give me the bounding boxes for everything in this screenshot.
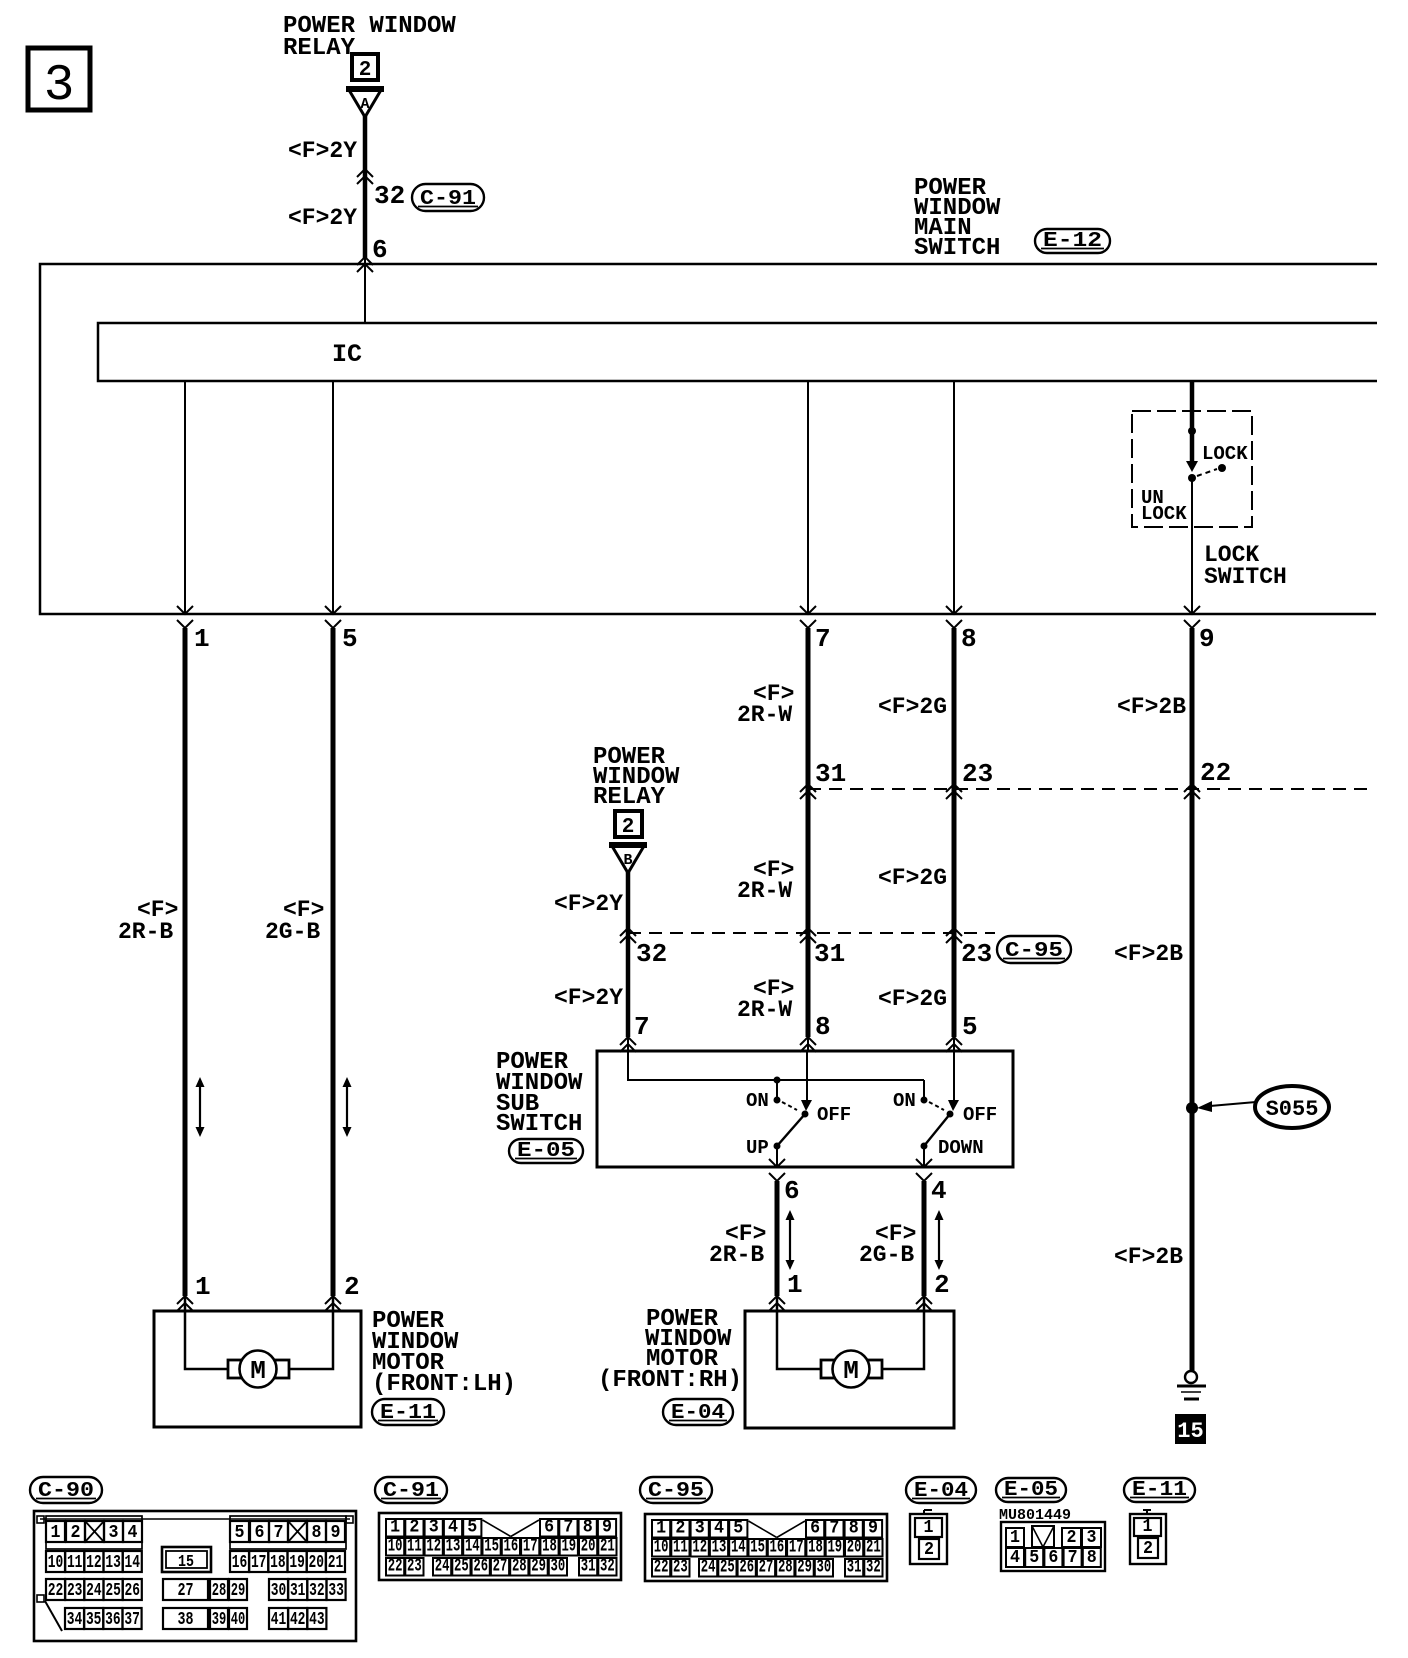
svg-text:20: 20: [581, 1536, 596, 1557]
wire pin7 inside box: [807, 381, 809, 614]
svg-text:1: 1: [924, 1517, 934, 1538]
lock switch moving contact arrow: [1186, 461, 1198, 472]
wire pin5 to motor LH: [331, 628, 336, 1296]
svg-text:28: 28: [778, 1557, 793, 1578]
svg-text:E-05: E-05: [517, 1140, 575, 1163]
label POWER WINDOW MOTOR FRONT LH: [372, 1308, 516, 1398]
svg-text:27: 27: [759, 1557, 774, 1578]
connector label C-91 (bottom): [375, 1477, 447, 1503]
relay B terminal box 2: [615, 811, 642, 839]
svg-text:26: 26: [473, 1556, 488, 1577]
svg-text:21: 21: [600, 1536, 615, 1557]
sub wire pin8 internal: [806, 1051, 808, 1101]
svg-text:15: 15: [178, 1553, 194, 1572]
power window sub switch box: [597, 1051, 1013, 1167]
svg-text:2: 2: [675, 1518, 685, 1539]
label LOCK SWITCH: [1204, 542, 1287, 590]
svg-text:23: 23: [407, 1556, 422, 1577]
svg-text:20: 20: [309, 1552, 325, 1573]
wire pin8 inside box: [953, 381, 955, 614]
svg-text:1: 1: [1143, 1516, 1153, 1537]
connector crossing E-12 pin6: [357, 257, 373, 272]
svg-text:19: 19: [289, 1552, 305, 1573]
connector crossing relayB/32: [620, 928, 636, 943]
svg-text:25: 25: [454, 1556, 469, 1577]
svg-text:M: M: [250, 1356, 266, 1386]
svg-text:7: 7: [634, 1012, 650, 1042]
svg-text:<F>2G: <F>2G: [878, 694, 947, 720]
svg-text:SWITCH: SWITCH: [496, 1111, 582, 1138]
svg-text:42: 42: [290, 1609, 306, 1630]
connector crossing pin7/31 upper: [800, 784, 816, 799]
connector crossing motor LH pin1: [177, 1296, 193, 1311]
svg-text:25: 25: [105, 1580, 121, 1601]
svg-text:17: 17: [251, 1552, 267, 1573]
svg-text:UP: UP: [746, 1137, 769, 1159]
IC box: [98, 323, 1377, 381]
svg-text:3: 3: [429, 1517, 439, 1538]
sub right OFF arrow: [948, 1100, 959, 1111]
sub left dashed arc: [782, 1102, 797, 1110]
svg-text:17: 17: [523, 1536, 538, 1557]
svg-text:2: 2: [409, 1517, 419, 1538]
wire sub pin5 thin: [953, 1037, 955, 1051]
connector crossing pin8/23 lower: [946, 928, 962, 943]
up-down arrow (pin5 wire): [343, 1077, 352, 1137]
lock switch blade dashed: [1197, 469, 1217, 476]
wire pin4 to motor RH: [922, 1181, 927, 1296]
relay A triangle: [346, 89, 384, 117]
svg-text:E-05: E-05: [1004, 1479, 1058, 1502]
connector crossing pin9/22 upper: [1184, 784, 1200, 799]
svg-text:40: 40: [231, 1609, 246, 1630]
svg-text:26: 26: [125, 1580, 141, 1601]
svg-text:11: 11: [67, 1552, 83, 1573]
label POWER WINDOW RELAY (B): [593, 744, 680, 811]
wire pin8 to sub switch: [952, 628, 957, 1037]
svg-text:OFF: OFF: [963, 1104, 997, 1126]
connector crossing main switch pin 9: [1184, 606, 1200, 628]
S055 arrow: [1197, 1101, 1256, 1112]
connector label E-11 (bottom): [1124, 1478, 1195, 1502]
svg-text:16: 16: [232, 1552, 248, 1573]
svg-text:4: 4: [1010, 1547, 1020, 1568]
wire relay A to main switch: [363, 115, 368, 258]
sub right dashed arc: [929, 1102, 944, 1110]
svg-text:1: 1: [51, 1522, 61, 1543]
svg-text:E-11: E-11: [380, 1402, 436, 1425]
motor LH wire pin1 inside: [185, 1296, 228, 1369]
connector E-05 pin diagram: [999, 1507, 1105, 1571]
connector label C-91 (top): [412, 184, 484, 211]
connector C-90 pin diagram: [34, 1511, 356, 1641]
page number 3 box: [28, 48, 90, 115]
svg-text:10: 10: [48, 1552, 64, 1573]
svg-text:11: 11: [407, 1536, 422, 1557]
svg-text:9: 9: [868, 1518, 878, 1539]
svg-text:2G-B: 2G-B: [265, 919, 320, 945]
wire pin5 inside box: [332, 381, 334, 614]
sub right ON contact dot: [921, 1097, 928, 1104]
svg-text:18: 18: [270, 1552, 286, 1573]
sub right DOWN contact dot: [921, 1143, 928, 1150]
svg-text:23: 23: [673, 1557, 688, 1578]
motor LH right brush: [275, 1360, 289, 1378]
svg-text:2: 2: [71, 1522, 81, 1543]
svg-text:LOCK: LOCK: [1141, 503, 1187, 525]
label POWER WINDOW RELAY (A): [283, 13, 456, 62]
svg-text:13: 13: [712, 1537, 727, 1558]
sub right ON stem: [923, 1080, 925, 1097]
connector C-95 pin diagram: [645, 1514, 887, 1581]
dashed harness line upper: [808, 788, 1369, 790]
wire sub pin7 thin: [627, 1037, 629, 1051]
svg-text:1: 1: [195, 1272, 211, 1302]
motor RH wire pin1 inside: [777, 1296, 821, 1369]
svg-text:6: 6: [544, 1517, 554, 1538]
svg-text:27: 27: [493, 1556, 508, 1577]
svg-text:5: 5: [733, 1518, 743, 1539]
svg-text:18: 18: [808, 1537, 823, 1558]
svg-text:21: 21: [866, 1537, 881, 1558]
connector crossing motor RH pin2: [916, 1296, 932, 1311]
svg-text:24: 24: [86, 1580, 102, 1601]
svg-text:2: 2: [1143, 1538, 1153, 1559]
svg-text:29: 29: [531, 1556, 546, 1577]
svg-text:31: 31: [815, 759, 846, 789]
svg-text:12: 12: [86, 1552, 102, 1573]
sub left OFF contact dot: [802, 1111, 809, 1118]
wire to lock switch: [1190, 381, 1195, 464]
svg-text:1: 1: [194, 624, 210, 654]
svg-text:30: 30: [271, 1580, 287, 1601]
svg-text:24: 24: [701, 1557, 716, 1578]
svg-text:2: 2: [1067, 1527, 1077, 1548]
svg-text:C-91: C-91: [420, 188, 476, 211]
connector label E-12: [1035, 229, 1110, 253]
svg-text:5: 5: [342, 624, 358, 654]
svg-text:29: 29: [797, 1557, 812, 1578]
dashed harness line lower (C-95): [628, 932, 995, 934]
svg-text:2R-W: 2R-W: [737, 878, 792, 904]
svg-text:E-04: E-04: [914, 1480, 968, 1503]
svg-text:<F>2B: <F>2B: [1117, 694, 1186, 720]
power window main switch box: [40, 264, 1377, 614]
svg-text:20: 20: [847, 1537, 862, 1558]
svg-text:5: 5: [235, 1522, 245, 1543]
svg-text:<F>2B: <F>2B: [1114, 941, 1183, 967]
svg-text:12: 12: [692, 1537, 707, 1558]
svg-text:33: 33: [328, 1580, 344, 1601]
svg-text:15: 15: [750, 1537, 765, 1558]
svg-text:<F>2G: <F>2G: [878, 865, 947, 891]
svg-text:41: 41: [271, 1609, 287, 1630]
relay A terminal box 2: [352, 54, 378, 82]
lock contact dot: [1218, 464, 1226, 472]
svg-text:LOCK: LOCK: [1202, 443, 1248, 465]
ground symbol: [1177, 1371, 1206, 1399]
svg-text:10: 10: [654, 1537, 669, 1558]
svg-text:2: 2: [934, 1270, 950, 1300]
svg-text:37: 37: [124, 1609, 140, 1630]
svg-text:1: 1: [656, 1518, 666, 1539]
svg-text:32: 32: [636, 939, 667, 969]
connector label C-95 (bottom): [640, 1477, 712, 1503]
label (F)2G-B: [265, 897, 324, 945]
connector crossing sub pin8: [800, 1037, 816, 1052]
svg-text:9: 9: [331, 1522, 341, 1543]
svg-text:2: 2: [359, 59, 372, 82]
svg-text:2: 2: [344, 1272, 360, 1302]
connector label E-05 (bottom): [996, 1478, 1066, 1502]
svg-text:11: 11: [673, 1537, 688, 1558]
connector crossing main switch pin 7: [800, 606, 816, 628]
svg-text:28: 28: [512, 1556, 527, 1577]
svg-text:9: 9: [602, 1517, 612, 1538]
label (F)2R-W second: [737, 857, 794, 904]
power window motor RH box: [745, 1311, 954, 1428]
up-down arrow (pin4 wire): [935, 1210, 944, 1270]
svg-text:24: 24: [435, 1556, 450, 1577]
label UNLOCK (contact): [1141, 487, 1187, 525]
svg-text:15: 15: [484, 1536, 499, 1557]
connector label E-11 (motor): [372, 1399, 444, 1425]
connector label E-04 (bottom): [906, 1477, 976, 1503]
label (F)2R-B (RH): [709, 1221, 766, 1268]
sub left UP contact dot: [774, 1143, 781, 1150]
sub wire pin5 internal: [953, 1051, 955, 1101]
motor RH circle M: [833, 1351, 870, 1388]
motor RH wire pin2 inside: [882, 1296, 924, 1369]
sub left ON junction dot: [774, 1077, 781, 1084]
connector E-11 pin diagram: [1130, 1510, 1166, 1564]
svg-text:2G-B: 2G-B: [859, 1242, 914, 1268]
svg-text:38: 38: [178, 1609, 194, 1630]
svg-text:18: 18: [542, 1536, 557, 1557]
motor RH left brush: [821, 1360, 835, 1378]
connector label E-05 (box): [509, 1139, 583, 1163]
svg-text:4: 4: [448, 1517, 458, 1538]
svg-text:31: 31: [814, 939, 845, 969]
svg-text:9: 9: [1199, 624, 1215, 654]
svg-text:35: 35: [86, 1609, 102, 1630]
svg-text:C-90: C-90: [38, 1480, 94, 1503]
connector crossing pin7/31 lower: [800, 928, 816, 943]
connector crossing motor RH pin1: [769, 1296, 785, 1311]
svg-text:6: 6: [372, 235, 388, 265]
wire pin9 to ground: [1190, 628, 1195, 1371]
svg-text:7: 7: [1068, 1547, 1078, 1568]
connector crossing sub pin7: [620, 1037, 636, 1052]
svg-text:12: 12: [426, 1536, 441, 1557]
svg-text:C-95: C-95: [648, 1480, 704, 1503]
svg-text:17: 17: [789, 1537, 804, 1558]
svg-text:22: 22: [48, 1580, 64, 1601]
connector crossing sub pin6: [769, 1159, 785, 1181]
wire pin1 to motor LH: [183, 628, 188, 1296]
svg-text:30: 30: [817, 1557, 832, 1578]
svg-text:7: 7: [829, 1518, 839, 1539]
label POWER WINDOW MOTOR FRONT RH: [598, 1306, 742, 1394]
up-down arrow (pin6 wire): [786, 1210, 795, 1270]
power window motor LH box: [154, 1311, 361, 1427]
svg-text:4: 4: [714, 1518, 724, 1539]
svg-text:5: 5: [1029, 1547, 1039, 1568]
svg-text:22: 22: [654, 1557, 669, 1578]
svg-text:36: 36: [105, 1609, 121, 1630]
sub left blade: [777, 1114, 805, 1146]
connector crossing C-91 pin32 on wire A: [357, 169, 373, 184]
svg-text:6: 6: [255, 1522, 265, 1543]
label (F)2R-B: [118, 897, 178, 945]
svg-text:23: 23: [961, 939, 992, 969]
svg-text:RELAY: RELAY: [283, 35, 356, 62]
up-down arrow (pin1 wire): [196, 1077, 205, 1137]
sub left ON contact dot: [774, 1097, 781, 1104]
motor LH left brush: [228, 1360, 242, 1378]
svg-text:6: 6: [1048, 1547, 1058, 1568]
svg-text:28: 28: [212, 1580, 227, 1601]
svg-text:32: 32: [600, 1556, 615, 1577]
svg-text:(FRONT:RH): (FRONT:RH): [598, 1367, 742, 1394]
wire pin6 to motor RH: [775, 1181, 780, 1296]
svg-text:13: 13: [446, 1536, 461, 1557]
lock switch junction dot: [1188, 427, 1196, 435]
svg-text:SWITCH: SWITCH: [914, 235, 1000, 262]
svg-text:6: 6: [784, 1176, 800, 1206]
svg-text:8: 8: [849, 1518, 859, 1539]
svg-text:ON: ON: [893, 1090, 916, 1112]
sub left ON stem: [776, 1080, 778, 1097]
svg-text:ON: ON: [746, 1090, 769, 1112]
sub wire DOWN out: [923, 1146, 925, 1167]
svg-text:21: 21: [328, 1552, 344, 1573]
label POWER WINDOW MAIN SWITCH: [914, 175, 1001, 262]
connector crossing motor LH pin2: [325, 1296, 341, 1311]
lock switch common dot: [1188, 474, 1196, 482]
svg-text:26: 26: [739, 1557, 754, 1578]
svg-text:7: 7: [815, 624, 831, 654]
svg-text:27: 27: [178, 1580, 194, 1601]
svg-text:15: 15: [1177, 1419, 1203, 1444]
svg-text:22: 22: [1200, 758, 1231, 788]
svg-text:32: 32: [309, 1580, 325, 1601]
connector crossing main switch pin 8: [946, 606, 962, 628]
svg-text:31: 31: [581, 1556, 596, 1577]
svg-text:1: 1: [1010, 1527, 1020, 1548]
svg-text:1: 1: [787, 1270, 803, 1300]
svg-text:8: 8: [583, 1517, 593, 1538]
svg-text:3: 3: [695, 1518, 705, 1539]
motor RH right brush: [868, 1360, 882, 1378]
svg-text:14: 14: [465, 1536, 480, 1557]
wire pin1 inside box: [184, 381, 186, 614]
svg-text:C-91: C-91: [383, 1480, 439, 1503]
svg-text:1: 1: [390, 1517, 400, 1538]
svg-text:31: 31: [290, 1580, 306, 1601]
connector crossing sub pin4: [916, 1159, 932, 1181]
svg-text:13: 13: [105, 1552, 121, 1573]
svg-text:25: 25: [720, 1557, 735, 1578]
svg-text:39: 39: [212, 1609, 227, 1630]
svg-text:4: 4: [128, 1522, 138, 1543]
svg-text:23: 23: [67, 1580, 83, 1601]
svg-text:<F>2B: <F>2B: [1114, 1244, 1183, 1270]
svg-text:2R-B: 2R-B: [118, 919, 173, 945]
svg-text:32: 32: [866, 1557, 881, 1578]
label (F)2R-W first: [737, 681, 794, 728]
svg-text:43: 43: [309, 1609, 325, 1630]
svg-text:23: 23: [962, 759, 993, 789]
svg-text:<F>2Y: <F>2Y: [288, 205, 357, 231]
label POWER WINDOW SUB SWITCH: [496, 1049, 583, 1138]
wire A thin into IC: [364, 258, 366, 323]
svg-text:E-12: E-12: [1043, 230, 1102, 253]
svg-text:RELAY: RELAY: [593, 784, 666, 811]
ground id 15 box: [1175, 1414, 1206, 1444]
svg-text:E-11: E-11: [1132, 1479, 1187, 1502]
connector label C-95 (middle): [997, 936, 1071, 963]
svg-text:3: 3: [44, 58, 75, 115]
svg-text:E-04: E-04: [671, 1402, 725, 1425]
svg-text:<F>2G: <F>2G: [878, 986, 947, 1012]
connector crossing sub pin5: [946, 1037, 962, 1052]
svg-text:14: 14: [731, 1537, 746, 1558]
svg-text:8: 8: [961, 624, 977, 654]
svg-text:A: A: [360, 96, 369, 113]
relay B triangle: [609, 845, 647, 873]
wire relay B to sub switch: [626, 871, 631, 1037]
svg-text:19: 19: [827, 1537, 842, 1558]
svg-text:10: 10: [388, 1536, 403, 1557]
svg-text:2: 2: [924, 1539, 934, 1560]
svg-text:14: 14: [125, 1552, 141, 1573]
connector label E-04 (motor): [663, 1399, 733, 1425]
connector crossing main switch pin 1: [177, 606, 193, 628]
splice S055 junction dot: [1186, 1102, 1198, 1114]
svg-text:2R-W: 2R-W: [737, 702, 792, 728]
svg-text:32: 32: [374, 181, 405, 211]
svg-text:DOWN: DOWN: [938, 1137, 984, 1159]
svg-text:2: 2: [622, 816, 635, 839]
connector E-04 pin diagram: [910, 1510, 947, 1564]
lock switch dashed box: [1132, 411, 1252, 527]
svg-text:M: M: [843, 1356, 859, 1386]
wire lock to box bottom: [1191, 478, 1193, 614]
svg-text:<F>2Y: <F>2Y: [554, 891, 623, 917]
S055 oval label: [1255, 1086, 1329, 1128]
svg-text:7: 7: [563, 1517, 573, 1538]
svg-text:16: 16: [504, 1536, 519, 1557]
svg-text:2R-W: 2R-W: [737, 997, 792, 1023]
svg-text:22: 22: [388, 1556, 403, 1577]
svg-text:SWITCH: SWITCH: [1204, 564, 1287, 590]
svg-text:30: 30: [551, 1556, 566, 1577]
svg-text:5: 5: [962, 1012, 978, 1042]
connector crossing main switch pin 5: [325, 606, 341, 628]
sub wire UP out: [776, 1146, 778, 1167]
svg-text:B: B: [623, 852, 632, 869]
wire sub pin8 thin: [807, 1037, 809, 1051]
svg-text:31: 31: [847, 1557, 862, 1578]
sub wire pin7 internal: [628, 1051, 924, 1080]
svg-text:3: 3: [109, 1522, 119, 1543]
sub right OFF contact dot: [947, 1111, 954, 1118]
svg-text:<F>2Y: <F>2Y: [288, 138, 357, 164]
svg-text:4: 4: [931, 1176, 947, 1206]
svg-text:34: 34: [67, 1609, 83, 1630]
label (F)2R-W third: [737, 976, 794, 1023]
